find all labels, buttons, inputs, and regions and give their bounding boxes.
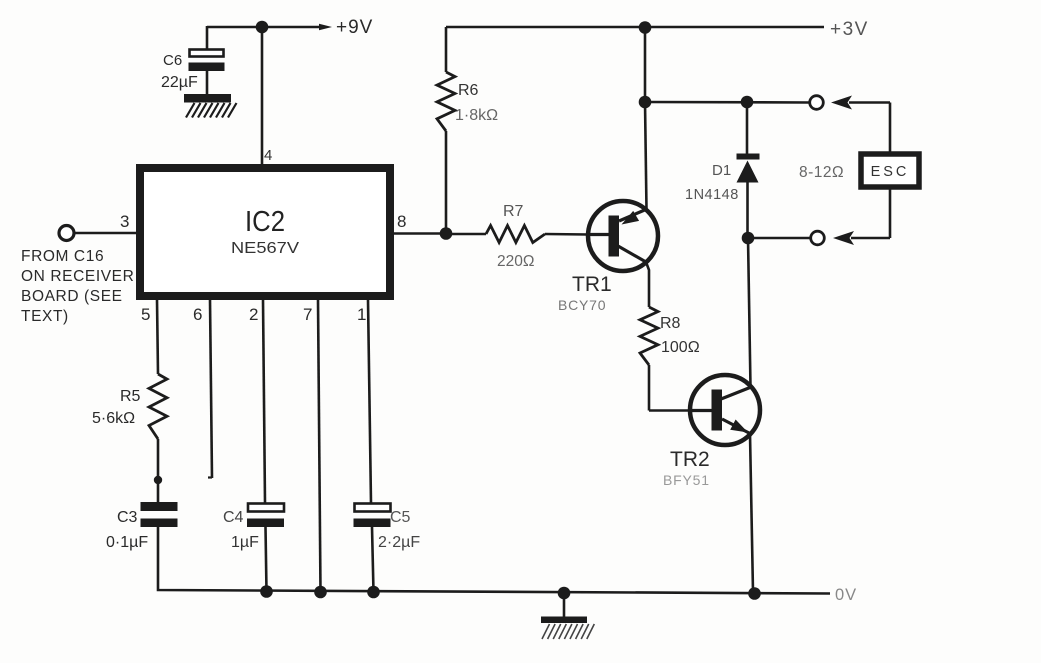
svg-text:1: 1 <box>357 305 366 324</box>
svg-text:5·6kΩ: 5·6kΩ <box>92 410 135 427</box>
svg-text:ON RECEIVER: ON RECEIVER <box>21 268 134 285</box>
svg-text:+9V: +9V <box>336 17 373 38</box>
svg-text:2: 2 <box>249 305 258 324</box>
svg-text:ESC: ESC <box>871 164 910 180</box>
svg-text:+3V: +3V <box>830 19 869 40</box>
svg-text:R5: R5 <box>120 388 141 405</box>
svg-text:C6: C6 <box>163 52 182 69</box>
svg-text:R7: R7 <box>503 203 524 220</box>
svg-text:TEXT): TEXT) <box>21 308 69 325</box>
svg-text:1·8kΩ: 1·8kΩ <box>455 107 498 124</box>
svg-text:4: 4 <box>264 147 272 164</box>
svg-text:8-12Ω: 8-12Ω <box>799 164 844 181</box>
svg-text:BOARD (SEE: BOARD (SEE <box>21 288 123 305</box>
svg-text:BCY70: BCY70 <box>558 297 606 313</box>
svg-text:100Ω: 100Ω <box>661 339 700 356</box>
svg-text:TR2: TR2 <box>670 448 710 471</box>
svg-text:0·1µF: 0·1µF <box>106 534 148 551</box>
svg-text:7: 7 <box>303 305 312 324</box>
svg-text:R6: R6 <box>458 82 479 99</box>
svg-text:2·2µF: 2·2µF <box>378 534 420 551</box>
svg-text:C5: C5 <box>390 509 411 526</box>
svg-text:IC2: IC2 <box>245 206 285 238</box>
svg-text:22µF: 22µF <box>161 74 198 91</box>
svg-text:6: 6 <box>193 305 202 324</box>
svg-text:TR1: TR1 <box>572 273 612 296</box>
svg-text:C3: C3 <box>117 509 138 526</box>
svg-text:NE567V: NE567V <box>231 240 299 257</box>
svg-text:1N4148: 1N4148 <box>685 187 739 203</box>
svg-text:C4: C4 <box>223 509 244 526</box>
svg-text:BFY51: BFY51 <box>663 472 710 488</box>
svg-text:FROM C16: FROM C16 <box>21 248 104 265</box>
svg-text:D1: D1 <box>712 162 731 179</box>
svg-text:3: 3 <box>120 212 129 231</box>
svg-text:5: 5 <box>141 305 150 324</box>
svg-text:8: 8 <box>397 212 406 231</box>
svg-text:220Ω: 220Ω <box>497 253 534 270</box>
svg-text:R8: R8 <box>660 315 681 332</box>
svg-text:1µF: 1µF <box>231 534 259 551</box>
svg-text:0V: 0V <box>835 586 857 604</box>
